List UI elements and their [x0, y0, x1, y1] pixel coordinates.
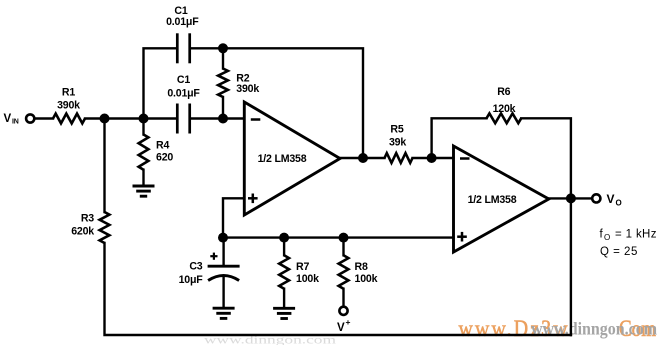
svg-text:620: 620	[156, 152, 173, 164]
svg-text:C3: C3	[189, 261, 202, 273]
svg-text:O: O	[604, 233, 610, 242]
svg-text:C1: C1	[177, 74, 190, 86]
svg-text:1/2 LM358: 1/2 LM358	[258, 153, 307, 165]
svg-text:120k: 120k	[493, 103, 516, 115]
svg-text:IN: IN	[12, 119, 19, 126]
svg-text:+: +	[346, 317, 351, 327]
svg-text:390k: 390k	[236, 83, 259, 95]
svg-text:10μF: 10μF	[179, 274, 204, 286]
svg-text:39k: 39k	[389, 137, 406, 149]
svg-text:V: V	[607, 192, 615, 206]
svg-text:V: V	[337, 322, 345, 334]
svg-text:V: V	[4, 113, 12, 125]
svg-text:www.dinngon.com: www.dinngon.com	[204, 335, 336, 345]
svg-text:R7: R7	[296, 261, 309, 273]
svg-text:Q = 25: Q = 25	[600, 246, 638, 258]
svg-text:R5: R5	[390, 124, 403, 136]
svg-text:100k: 100k	[355, 273, 378, 285]
svg-text:R4: R4	[156, 140, 169, 152]
svg-text:R6: R6	[497, 86, 510, 98]
svg-text:O: O	[616, 199, 622, 208]
svg-text:www.dinngon.com: www.dinngon.com	[531, 319, 657, 339]
svg-text:620k: 620k	[71, 226, 94, 238]
svg-text:1/2 LM358: 1/2 LM358	[468, 194, 517, 206]
svg-text:0.01μF: 0.01μF	[166, 16, 199, 28]
svg-text:390k: 390k	[57, 100, 80, 112]
svg-text:R3: R3	[81, 213, 94, 225]
svg-text:0.01μF: 0.01μF	[167, 88, 200, 100]
svg-text:R8: R8	[355, 261, 368, 273]
svg-text:100k: 100k	[296, 273, 319, 285]
svg-text:R1: R1	[62, 87, 75, 99]
svg-text:= 1 kHz: = 1 kHz	[612, 229, 657, 241]
